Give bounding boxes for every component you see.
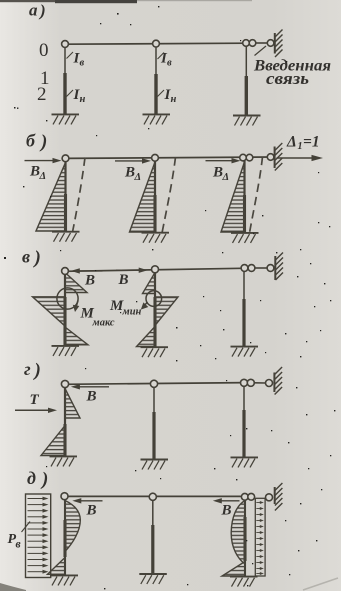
label M_max	[80, 306, 115, 329]
column g3	[243, 386, 245, 457]
support roller circle v	[267, 265, 274, 272]
column g2	[153, 387, 155, 459]
moment arrow circle v1	[57, 288, 79, 312]
hinge pair a3	[243, 40, 256, 47]
svg-text:2: 2	[37, 84, 47, 105]
moment diagram v2 top left	[143, 273, 156, 294]
svg-text:В: В	[221, 503, 232, 519]
moment diagram v1 bottom right	[65, 327, 88, 345]
svg-text:В: В	[29, 164, 40, 180]
moment diagram g1 top right	[65, 389, 80, 419]
label B_delta 3	[212, 165, 229, 184]
svg-text:н: н	[171, 94, 177, 105]
svg-text:связь: связь	[266, 69, 309, 88]
moment diagram v2 mid right	[155, 297, 178, 326]
scan edge artifact bottom left corner	[0, 583, 26, 591]
svg-text:в: в	[16, 539, 21, 551]
column d1	[64, 500, 66, 575]
force arrow B g	[71, 384, 109, 389]
support wall g	[274, 367, 282, 395]
moment triangle d3 bottom left	[222, 562, 245, 577]
label B_delta 2	[124, 165, 141, 184]
column b1	[64, 162, 66, 232]
svg-text:): )	[40, 469, 48, 490]
column b3	[243, 161, 245, 233]
moment diagram v1 mid left	[33, 297, 66, 326]
svg-text:В: В	[212, 165, 223, 181]
moment diagram v1 top right	[65, 273, 87, 293]
label d)	[27, 468, 48, 490]
label a)	[29, 1, 46, 21]
label I_H a2	[158, 87, 177, 105]
ground v2	[141, 347, 169, 357]
hinge a2	[153, 40, 160, 47]
column b2	[154, 161, 156, 232]
svg-text:Δ: Δ	[134, 172, 142, 183]
ground v1	[52, 346, 80, 356]
hinge b1	[62, 155, 69, 162]
hinge g2	[150, 380, 157, 387]
scan edge artifact top	[0, 0, 252, 3]
link to support g	[255, 382, 266, 384]
label v)	[22, 247, 41, 269]
column v3	[243, 272, 245, 347]
support wall a	[275, 30, 283, 58]
ground g1	[50, 456, 78, 466]
svg-text:д: д	[27, 468, 36, 488]
label g)	[24, 359, 41, 381]
force arrow B_delta 3	[206, 158, 241, 163]
svg-text:в: в	[80, 58, 85, 69]
ground a3	[233, 116, 261, 126]
label B_delta 1	[29, 164, 46, 183]
support roller circle g	[266, 380, 273, 387]
svg-text:): )	[33, 248, 41, 269]
moment arrow circle v2	[141, 291, 162, 310]
hinge pair d3	[241, 493, 254, 500]
force arrow T	[15, 408, 57, 413]
svg-text:): )	[39, 132, 47, 153]
moment triangle d1 bottom left	[48, 558, 66, 575]
svg-text:Т: Т	[30, 392, 40, 408]
svg-text:): )	[38, 1, 46, 20]
svg-text:г: г	[24, 359, 31, 379]
svg-text:=1: =1	[303, 134, 320, 151]
support wall b	[275, 143, 283, 171]
svg-text:1: 1	[298, 141, 303, 152]
beam b	[66, 157, 275, 158]
svg-text:В: В	[84, 273, 95, 289]
svg-text:В: В	[124, 165, 135, 181]
svg-text:Δ: Δ	[286, 134, 297, 151]
distributed load strip right	[255, 498, 265, 576]
beam d	[65, 495, 242, 497]
column a1 lower I_H	[63, 73, 66, 114]
leader slash a	[255, 46, 267, 56]
moment curve d3	[231, 501, 245, 565]
scan edge artifact bottom right	[303, 578, 338, 590]
hinge a1	[62, 41, 69, 48]
hinge pair v3	[241, 265, 255, 272]
beam g	[65, 383, 246, 385]
svg-text:в: в	[22, 247, 30, 267]
svg-text:Δ: Δ	[222, 172, 230, 183]
svg-text:): )	[33, 360, 41, 381]
label b)	[26, 131, 47, 153]
column v2	[154, 273, 156, 347]
link to introduced support a	[256, 42, 267, 44]
moment diagram g1 bottom left	[41, 426, 65, 456]
label I_H a1	[67, 87, 86, 105]
link to support v	[255, 267, 267, 269]
support roller circle d	[266, 494, 273, 501]
column d3	[244, 500, 246, 576]
column a3	[245, 46, 247, 115]
ground g3	[231, 457, 259, 467]
beam v	[65, 268, 241, 271]
column d2	[152, 500, 154, 573]
svg-text:В: В	[86, 503, 97, 519]
ground v3	[231, 347, 259, 357]
label delta1=1	[286, 134, 320, 153]
ground a2	[143, 114, 171, 124]
hinge pair g3	[241, 379, 255, 386]
svg-text:в: в	[167, 58, 172, 69]
support roller circle a	[267, 40, 274, 47]
dashed deflection b3	[250, 157, 263, 233]
moment triangle b3	[221, 162, 245, 232]
ground b3	[231, 233, 259, 243]
moment triangle b2	[130, 162, 156, 232]
ground a1	[52, 114, 80, 124]
hinge d1	[61, 493, 68, 500]
svg-text:н: н	[80, 94, 86, 105]
svg-text:б: б	[26, 131, 36, 151]
column g1	[64, 388, 66, 456]
ground d3	[230, 577, 258, 587]
dashed deflection b2	[162, 157, 176, 233]
hinge v1	[62, 268, 69, 275]
hinge v2	[152, 266, 159, 273]
distributed load block Pv left	[26, 494, 51, 578]
column v1	[64, 274, 66, 345]
label M_min	[109, 298, 142, 318]
force arrow B d3	[213, 498, 240, 503]
support wall d	[275, 483, 283, 511]
support roller circle b	[267, 154, 274, 161]
column a1 upper I_B	[64, 47, 66, 73]
ground d1	[51, 575, 79, 585]
support wall v	[275, 253, 283, 281]
svg-text:макс: макс	[92, 318, 115, 329]
displacement arrow delta1=1	[277, 155, 324, 161]
column a2 lower I_H	[154, 74, 157, 114]
beam a	[65, 43, 246, 44]
label I_B a1	[67, 51, 85, 69]
hinge pair b3	[240, 154, 253, 161]
svg-text:В: В	[118, 272, 129, 288]
moment curve d1	[65, 501, 80, 552]
moment diagram v2 bottom left	[137, 327, 156, 347]
hinge g1	[61, 380, 68, 387]
hinge b2	[152, 154, 159, 161]
label Pv	[8, 522, 31, 551]
svg-text:а: а	[29, 1, 38, 20]
force arrow B d1	[72, 498, 102, 503]
force arrow B v2	[116, 268, 148, 273]
label I_B a2	[158, 51, 173, 69]
dashed deflection b1	[73, 158, 86, 233]
ground b1	[52, 232, 80, 242]
force arrow B v1	[71, 268, 103, 273]
ground d2	[139, 574, 167, 584]
hinge d2	[149, 493, 156, 500]
svg-text:В: В	[86, 389, 97, 405]
ground b2	[142, 233, 170, 243]
svg-text:Δ: Δ	[39, 171, 47, 182]
label vvedennaya svyaz	[253, 58, 331, 89]
moment triangle b1	[36, 163, 66, 232]
ground g2	[141, 460, 169, 470]
column a2 upper I_B	[155, 47, 157, 75]
force arrow B_delta 2	[115, 158, 151, 163]
svg-text:0: 0	[39, 40, 49, 61]
svg-text:мин: мин	[122, 307, 142, 318]
force arrow B_delta 1	[25, 158, 62, 163]
